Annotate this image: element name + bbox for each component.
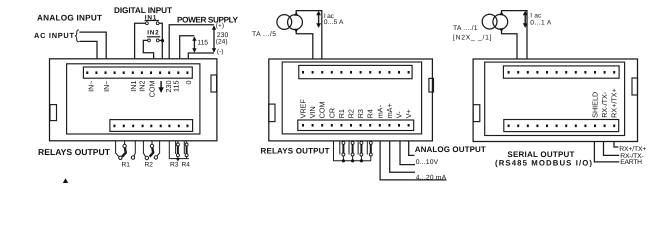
svg-text:R1: R1 xyxy=(122,162,131,169)
relay R3 xyxy=(169,141,189,169)
left mounting tab right block xyxy=(473,105,480,122)
wire IN1 left to terminal xyxy=(135,23,146,59)
relay R1 xyxy=(116,141,136,169)
svg-text:(24): (24) xyxy=(216,39,228,46)
ground arrow label under strip xyxy=(158,81,163,93)
measure arrow 115 xyxy=(192,37,196,53)
upper terminal strip left block xyxy=(83,67,192,78)
wire RX+/TX+ output xyxy=(614,142,618,148)
svg-text:V+: V+ xyxy=(404,109,413,118)
current arrow down right CT xyxy=(500,28,504,32)
wire CT lower right block xyxy=(502,29,518,59)
wire AC lower to IN~ xyxy=(79,41,97,58)
wire RX-/TX- output xyxy=(604,142,620,156)
right mounting tab right block xyxy=(632,78,638,95)
svg-text:RELAYS OUTPUT: RELAYS OUTPUT xyxy=(261,147,330,156)
relay contact R1 middle xyxy=(340,141,345,163)
lower terminal strip middle block xyxy=(298,120,414,131)
svg-text:CR: CR xyxy=(327,108,336,118)
svg-text:IN2: IN2 xyxy=(147,30,159,37)
svg-text:(+): (+) xyxy=(216,23,224,30)
svg-text:IN~: IN~ xyxy=(102,81,111,92)
svg-text:COM: COM xyxy=(318,102,327,119)
label AC INPUT with brace xyxy=(34,30,79,42)
relay contact R2 middle xyxy=(349,141,354,163)
svg-text:RX-/TX-: RX-/TX- xyxy=(600,91,609,118)
svg-text:115: 115 xyxy=(197,39,208,46)
svg-text:RX+/TX+: RX+/TX+ xyxy=(610,88,619,118)
wire power 230 xyxy=(169,25,214,59)
terminal labels middle block xyxy=(299,99,414,119)
wire IN2 right to rail xyxy=(159,39,162,41)
svg-text:SHIELD: SHIELD xyxy=(591,92,600,118)
current transformer TA right xyxy=(482,14,507,29)
terminal labels left block xyxy=(86,81,193,98)
wire V+ output xyxy=(409,141,415,156)
upper terminal strip middle block xyxy=(299,65,412,78)
relay R4 xyxy=(182,141,191,169)
svg-text:R2: R2 xyxy=(145,162,154,169)
device outline right block xyxy=(473,59,637,142)
wire AC upper to IN~ xyxy=(79,32,106,59)
svg-text:[N2X_ _/1]: [N2X_ _/1] xyxy=(453,35,492,42)
svg-text:115: 115 xyxy=(172,81,181,92)
switch IN2 xyxy=(147,30,160,42)
svg-text:AC INPUT: AC INPUT xyxy=(34,31,74,40)
wire CT upper right block xyxy=(502,11,528,59)
svg-text:IN~: IN~ xyxy=(86,81,95,92)
device outline middle block xyxy=(269,59,433,141)
svg-text:TA .../5: TA .../5 xyxy=(252,31,276,38)
measure arrow 230 xyxy=(212,25,216,52)
svg-text:4...20 mA: 4...20 mA xyxy=(416,174,447,181)
device outline left block xyxy=(50,59,217,141)
upper terminal strip right block xyxy=(503,66,619,78)
svg-text:DIGITAL INPUT: DIGITAL INPUT xyxy=(114,6,172,15)
svg-text:0...1 A: 0...1 A xyxy=(530,19,552,26)
svg-text:V-: V- xyxy=(395,111,404,118)
lower terminal strip right block xyxy=(504,120,619,132)
svg-text:0: 0 xyxy=(184,81,193,85)
right mounting tab left block xyxy=(211,75,217,92)
svg-text:IN1: IN1 xyxy=(129,81,138,92)
svg-text:R4: R4 xyxy=(182,162,191,169)
svg-text:TA ..../1: TA ..../1 xyxy=(453,25,478,32)
junction dot digital rail xyxy=(161,39,164,42)
left mounting tab middle block xyxy=(269,104,275,122)
svg-text:POWER SUPPLY: POWER SUPPLY xyxy=(177,15,239,24)
terminal labels right block xyxy=(591,88,619,118)
wire mA- output xyxy=(380,141,446,180)
wire IN1 right rail down xyxy=(159,23,162,59)
svg-text:(-): (-) xyxy=(217,48,224,55)
svg-text:R2: R2 xyxy=(347,109,356,118)
current arrow up right CT xyxy=(500,11,504,15)
svg-text:0...10V: 0...10V xyxy=(416,159,439,166)
svg-text:COM: COM xyxy=(147,81,156,98)
measure arrow I ac right xyxy=(523,11,528,28)
current transformer TA middle xyxy=(277,15,303,30)
cut-off arrow bottom left xyxy=(63,178,68,183)
right mounting tab middle block xyxy=(429,78,434,92)
svg-text:VIN: VIN xyxy=(308,106,317,118)
svg-text:0...5 A: 0...5 A xyxy=(324,19,344,26)
wire power 115 xyxy=(180,36,195,59)
wire CT upper to COM xyxy=(296,11,322,59)
relay R2 xyxy=(143,141,159,169)
relay contact R4 middle xyxy=(367,141,372,161)
svg-text:R1: R1 xyxy=(337,109,346,118)
svg-text:R4: R4 xyxy=(366,109,375,118)
svg-text:R3: R3 xyxy=(356,109,365,118)
wire power 0 xyxy=(188,53,214,59)
wire relay common CR with bus xyxy=(334,141,372,161)
lower terminal strip left block xyxy=(110,120,193,132)
svg-text:ANALOG OUTPUT: ANALOG OUTPUT xyxy=(415,145,486,154)
current arrow up on CT wire xyxy=(294,12,298,16)
svg-text:mA+: mA+ xyxy=(385,103,394,118)
svg-text:(RS485 MODBUS I/O): (RS485 MODBUS I/O) xyxy=(495,159,592,168)
wire IN2 left to terminal xyxy=(143,40,153,58)
svg-text:VREF: VREF xyxy=(299,99,308,119)
relay contact R3 middle xyxy=(358,141,363,163)
svg-text:R3: R3 xyxy=(170,162,179,169)
wire EARTH output xyxy=(594,142,619,162)
svg-text:EARTH: EARTH xyxy=(620,159,642,166)
wire mA+ output xyxy=(390,141,415,172)
svg-text:ANALOG INPUT: ANALOG INPUT xyxy=(37,14,102,23)
svg-text:RELAYS OUTPUT: RELAYS OUTPUT xyxy=(38,147,111,157)
switch IN1 xyxy=(145,14,159,24)
svg-text:IN2: IN2 xyxy=(138,81,147,92)
wire CT lower to VIN xyxy=(296,29,313,59)
wire V- output xyxy=(400,141,415,165)
current arrow down on CT wire xyxy=(294,29,298,33)
svg-text:mA-: mA- xyxy=(375,105,384,119)
measure arrow I ac middle xyxy=(316,11,321,28)
left mounting tab left block xyxy=(50,105,57,121)
